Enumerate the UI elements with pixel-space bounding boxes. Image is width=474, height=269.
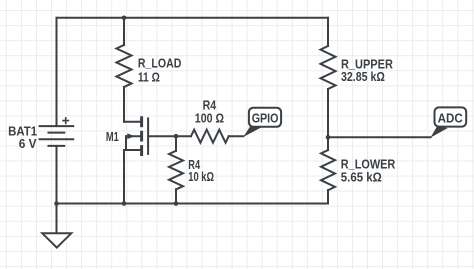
- svg-text:R_LOWER: R_LOWER: [341, 158, 396, 172]
- svg-text:GPIO: GPIO: [252, 111, 279, 125]
- svg-text:ADC: ADC: [438, 111, 463, 125]
- svg-text:6 V: 6 V: [19, 137, 37, 151]
- svg-text:5.65 kΩ: 5.65 kΩ: [341, 171, 382, 185]
- svg-text:11 Ω: 11 Ω: [138, 70, 160, 84]
- svg-text:R_LOAD: R_LOAD: [138, 56, 182, 70]
- svg-text:100 Ω: 100 Ω: [195, 112, 224, 126]
- svg-text:R4: R4: [203, 99, 217, 113]
- svg-text:M1: M1: [106, 130, 119, 144]
- svg-text:10 kΩ: 10 kΩ: [188, 170, 214, 184]
- svg-text:32.85 kΩ: 32.85 kΩ: [341, 70, 385, 84]
